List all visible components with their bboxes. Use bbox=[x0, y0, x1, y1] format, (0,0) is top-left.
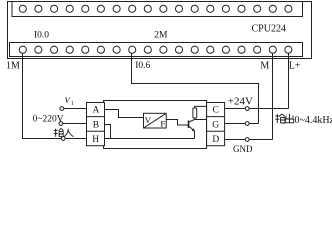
svg-text:0~4.4kHz: 0~4.4kHz bbox=[295, 115, 332, 126]
label 输出0~4.4kHz bbox=[275, 114, 294, 123]
bottom terminal strip bbox=[10, 43, 303, 57]
terminal circle +24V bbox=[245, 107, 249, 111]
wire I0.6 down, right, down to G wire bbox=[132, 53, 259, 123]
出 glyph bbox=[285, 114, 293, 123]
svg-text:1: 1 bbox=[71, 101, 74, 107]
入 glyph bbox=[64, 129, 73, 137]
svg-text:I0.0: I0.0 bbox=[34, 31, 49, 41]
terminal circle 0~220V bbox=[59, 122, 63, 126]
terminal circle V1 bbox=[60, 107, 64, 111]
svg-text:L+: L+ bbox=[289, 60, 301, 71]
V/F diagonal bbox=[144, 113, 167, 128]
svg-text:M: M bbox=[260, 60, 269, 71]
输 glyph bbox=[54, 128, 64, 136]
svg-text:H: H bbox=[92, 135, 99, 145]
svg-text:D: D bbox=[212, 135, 219, 145]
top terminal circles row bbox=[19, 5, 292, 12]
svg-text:1M: 1M bbox=[6, 60, 20, 71]
wire resistor top to C bbox=[195, 106, 207, 108]
V/F converter box U1 bbox=[144, 113, 167, 128]
terminal circle output bbox=[245, 122, 249, 126]
svg-text:B: B bbox=[93, 120, 99, 130]
svg-text:F: F bbox=[160, 119, 165, 129]
terminal circle 输入 on rail bbox=[61, 137, 65, 141]
svg-text:G: G bbox=[212, 120, 219, 130]
B riser to rail bbox=[105, 125, 111, 139]
wire L+ down to +24V/C wire bbox=[288, 53, 290, 108]
label 输入 (drawn glyphs) bbox=[54, 128, 74, 136]
wire 0~220V to B bbox=[63, 123, 87, 125]
resistor R1 bbox=[193, 108, 197, 118]
top terminal strip bbox=[12, 2, 303, 17]
emitter/H rail bbox=[105, 138, 195, 140]
wire 1M down-left-rail to H bbox=[23, 53, 87, 138]
right terminal column C/G/D bbox=[207, 103, 225, 146]
输 glyph bbox=[275, 114, 285, 123]
collector node wires to G and resistor bbox=[195, 118, 207, 120]
device main box bbox=[104, 101, 207, 149]
svg-text:A: A bbox=[93, 106, 100, 116]
PLC CPU224 outer box bbox=[8, 2, 312, 59]
svg-text:C: C bbox=[213, 106, 219, 116]
svg-text:2M: 2M bbox=[154, 31, 168, 41]
transistor Q1 base bar bbox=[188, 121, 190, 129]
wire V1 to A bbox=[64, 108, 87, 110]
emitter leg down to rail bbox=[194, 131, 196, 139]
svg-text:+24V: +24V bbox=[228, 95, 253, 107]
transistor collector stroke bbox=[189, 120, 195, 123]
internal wire A to V/F bbox=[105, 110, 144, 118]
wire V/F out to transistor base bbox=[166, 120, 188, 126]
svg-text:GND: GND bbox=[233, 144, 253, 153]
wire M down to D/GND wire bbox=[272, 53, 274, 139]
svg-text:V: V bbox=[145, 115, 152, 125]
wire G to output node bbox=[225, 123, 259, 125]
wire D to GND/M bbox=[225, 139, 273, 141]
terminal circle GND bbox=[245, 138, 249, 142]
svg-text:I0.6: I0.6 bbox=[135, 61, 150, 71]
transistor emitter stroke with arrow bbox=[189, 126, 193, 129]
left terminal column A/B/H bbox=[87, 103, 105, 146]
bottom terminal circles row bbox=[19, 46, 292, 53]
svg-text:CPU224: CPU224 bbox=[252, 23, 286, 34]
wire C to +24V/L+ bbox=[225, 108, 289, 110]
